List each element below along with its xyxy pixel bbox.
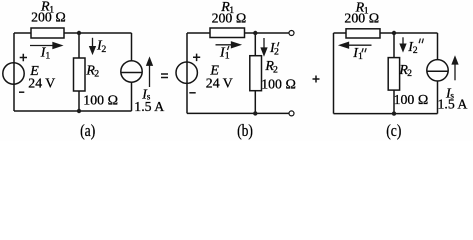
svg-text:2: 2 <box>273 64 278 75</box>
svg-text:(c): (c) <box>386 122 401 141</box>
svg-text:200 Ω: 200 Ω <box>212 11 247 26</box>
svg-text:2: 2 <box>101 44 106 55</box>
svg-text:1.5 A: 1.5 A <box>438 97 468 112</box>
svg-text:200 Ω: 200 Ω <box>344 10 379 25</box>
svg-text:2: 2 <box>94 69 99 80</box>
svg-text:2: 2 <box>274 46 279 57</box>
svg-text:1.5 A: 1.5 A <box>134 99 164 114</box>
svg-text:100 Ω: 100 Ω <box>83 93 118 108</box>
svg-text:(b): (b) <box>237 122 253 141</box>
svg-text:2: 2 <box>407 68 412 79</box>
svg-text:24 V: 24 V <box>28 75 55 90</box>
svg-text:1: 1 <box>225 51 230 62</box>
svg-text:1: 1 <box>358 51 363 62</box>
svg-text:100 Ω: 100 Ω <box>261 77 296 92</box>
svg-text:2: 2 <box>413 45 418 56</box>
svg-text:100 Ω: 100 Ω <box>394 92 429 107</box>
svg-text:24 V: 24 V <box>206 75 233 90</box>
svg-text:200 Ω: 200 Ω <box>31 10 66 25</box>
svg-text:1: 1 <box>45 50 50 61</box>
svg-text:(a): (a) <box>80 122 95 141</box>
